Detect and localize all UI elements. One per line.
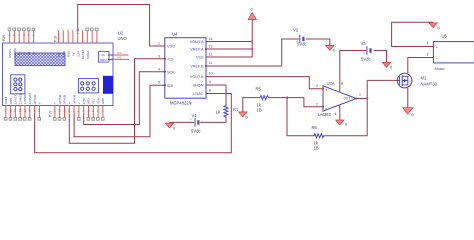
wire 5V rail to U4 VDD bbox=[78, 5, 165, 47]
wire VOUT.B pin10 to comparator + bbox=[206, 77, 323, 89]
svg-text:12: 12 bbox=[209, 53, 213, 57]
arduino ICSP header 1 bbox=[11, 75, 25, 94]
svg-text:VOUT.B: VOUT.B bbox=[190, 75, 204, 79]
svg-text:11/PWM: 11/PWM bbox=[23, 93, 27, 104]
svg-text:OUT: OUT bbox=[344, 97, 351, 101]
svg-text:U2: U2 bbox=[118, 31, 124, 36]
svg-text:-: - bbox=[373, 52, 374, 56]
svg-text:VOUT.A: VOUT.A bbox=[190, 40, 204, 44]
svg-text:3.3V: 3.3V bbox=[76, 51, 80, 57]
svg-text:R1: R1 bbox=[233, 107, 239, 112]
ground 0 at V2 bbox=[326, 45, 336, 52]
op-amp U3A LM393 bbox=[316, 81, 361, 117]
wire R5 right to node bbox=[270, 97, 287, 99]
arduino USB block bbox=[103, 76, 113, 94]
ground 0 at V3 bbox=[382, 62, 392, 69]
svg-text:0: 0 bbox=[246, 116, 248, 120]
wire R6 right to output node bbox=[327, 99, 367, 136]
svg-text:3: 3 bbox=[158, 54, 160, 58]
svg-text:NAMT30: NAMT30 bbox=[421, 82, 438, 87]
ground 0 flipped up bbox=[248, 8, 256, 20]
svg-text:4: 4 bbox=[158, 67, 160, 71]
svg-text:10: 10 bbox=[209, 72, 213, 76]
svg-text:-: - bbox=[201, 119, 202, 123]
svg-text:10/PWM: 10/PWM bbox=[28, 93, 32, 104]
svg-text:1/TX: 1/TX bbox=[82, 98, 86, 104]
svg-text:A5/SCL: A5/SCL bbox=[8, 48, 12, 58]
svg-text:UNO: UNO bbox=[118, 36, 128, 41]
connector U5 motor bbox=[427, 34, 474, 72]
svg-text:8: 8 bbox=[209, 89, 211, 93]
svg-text:AREF: AREF bbox=[4, 96, 8, 104]
svg-text:+: + bbox=[325, 88, 328, 93]
svg-text:5: 5 bbox=[158, 81, 160, 85]
svg-text:GND: GND bbox=[62, 51, 66, 57]
svg-text:V4: V4 bbox=[192, 113, 198, 118]
battery V3 5Vdc bbox=[361, 41, 375, 62]
svg-text:14: 14 bbox=[209, 37, 213, 41]
svg-text:A1: A1 bbox=[27, 51, 31, 55]
battery V2 5Vdc bbox=[293, 28, 307, 47]
svg-text:U4: U4 bbox=[172, 32, 178, 37]
wire ~CS net bbox=[69, 59, 165, 144]
svg-text:SDA: SDA bbox=[96, 98, 100, 104]
svg-text:SCK: SCK bbox=[167, 70, 175, 74]
svg-text:+: + bbox=[363, 52, 365, 56]
svg-text:V3: V3 bbox=[361, 41, 367, 46]
svg-text:0: 0 bbox=[333, 49, 335, 53]
svg-text:IOREF: IOREF bbox=[86, 50, 90, 59]
svg-text:GRN: GRN bbox=[100, 58, 107, 62]
svg-text:U3A: U3A bbox=[327, 81, 335, 86]
svg-text:RESET: RESET bbox=[81, 49, 85, 59]
svg-text:GND: GND bbox=[101, 98, 105, 104]
svg-text:IP2: IP2 bbox=[118, 55, 122, 59]
svg-text:A0: A0 bbox=[32, 51, 36, 55]
svg-text:-CS: -CS bbox=[167, 57, 174, 61]
svg-text:5Vdc: 5Vdc bbox=[297, 42, 307, 47]
svg-text:9: 9 bbox=[209, 80, 211, 84]
transistor M1 NAMT30 mosfet bbox=[397, 73, 437, 88]
wire R1 bottom to V4 plus bbox=[200, 118, 226, 122]
svg-text:A3: A3 bbox=[18, 51, 22, 55]
svg-text:6/PWM: 6/PWM bbox=[58, 94, 62, 104]
arduino U2 body bbox=[3, 31, 128, 106]
wire R5 left to ground bbox=[243, 98, 259, 112]
svg-text:5Vdc: 5Vdc bbox=[191, 128, 201, 133]
wire U5 pin1 ground loop bbox=[392, 22, 434, 46]
svg-text:-LDAC: -LDAC bbox=[192, 92, 204, 96]
svg-text:VDD: VDD bbox=[167, 45, 175, 49]
junction R5 node bbox=[286, 96, 288, 98]
wire op-amp output to gate node bbox=[356, 98, 367, 100]
svg-text:3/PWM: 3/PWM bbox=[72, 94, 76, 104]
svg-text:9/PWM: 9/PWM bbox=[33, 94, 37, 104]
wire ~LDAC net bbox=[35, 94, 232, 153]
svg-text:1: 1 bbox=[158, 42, 160, 46]
svg-text:SCL: SCL bbox=[92, 98, 96, 104]
svg-text:0: 0 bbox=[412, 113, 414, 117]
svg-text:GND: GND bbox=[9, 98, 13, 104]
svg-text:SDI: SDI bbox=[167, 84, 173, 88]
svg-text:12/MISO: 12/MISO bbox=[18, 92, 22, 104]
svg-text:4: 4 bbox=[335, 112, 337, 116]
wire VREF.B pin11 to V2 bbox=[206, 39, 299, 66]
wire gate bbox=[367, 79, 397, 81]
svg-text:11: 11 bbox=[209, 61, 213, 65]
svg-text:+: + bbox=[190, 118, 192, 122]
battery V4 5Vdc bbox=[190, 113, 202, 133]
svg-text:0/RX: 0/RX bbox=[87, 98, 91, 104]
svg-text:P15: P15 bbox=[49, 111, 53, 117]
svg-text:0: 0 bbox=[345, 123, 347, 127]
wire V4 to ground bbox=[169, 121, 194, 123]
wire V3 to ground bbox=[374, 51, 387, 63]
wire op-amp V- to ground bbox=[339, 105, 341, 120]
svg-text:1B: 1B bbox=[314, 146, 319, 151]
wire M1 source to ground bbox=[407, 88, 409, 108]
arduino bottom-right digital pins 0-7 group bbox=[53, 94, 105, 120]
wire SDI net bbox=[74, 85, 165, 137]
svg-text:GND: GND bbox=[67, 51, 71, 57]
ground 0 at R5 bbox=[239, 112, 248, 120]
wire op-amp V+ to V3 bbox=[340, 51, 366, 93]
junction pin13 rail bbox=[251, 48, 253, 50]
svg-text:P18: P18 bbox=[54, 36, 58, 42]
svg-text:U5: U5 bbox=[442, 34, 448, 39]
svg-text:3: 3 bbox=[316, 84, 318, 88]
svg-text:M1: M1 bbox=[421, 76, 427, 81]
svg-text:13: 13 bbox=[209, 45, 213, 49]
wire node down to R6 bbox=[287, 98, 313, 136]
wire VOUT.A pin14 bbox=[206, 41, 252, 43]
arduino right-edge pins bbox=[108, 51, 129, 59]
arduino crystal hatched block bbox=[15, 53, 65, 66]
resistor R1 1k bbox=[216, 105, 240, 119]
svg-text:P26: P26 bbox=[2, 35, 6, 41]
junction output node bbox=[366, 97, 368, 99]
resistor R6 1k bbox=[312, 125, 327, 151]
svg-text:5/PWM: 5/PWM bbox=[63, 94, 67, 104]
wire VSS pin12 bbox=[206, 20, 252, 58]
arduino bottom-left digital pins 8-13 group bbox=[4, 92, 42, 120]
svg-text:0: 0 bbox=[173, 127, 175, 131]
ground 0 at op-amp bbox=[336, 120, 348, 127]
svg-text:IP4: IP4 bbox=[118, 51, 122, 55]
svg-text:13/SCK: 13/SCK bbox=[14, 94, 18, 104]
ground 0 at V4 bbox=[165, 123, 175, 131]
svg-text:V2: V2 bbox=[293, 28, 299, 33]
svg-text:R5: R5 bbox=[256, 87, 262, 92]
wire node to comparator minus bbox=[287, 98, 323, 107]
junction 5V pin bbox=[77, 29, 79, 31]
wire SCK net bbox=[84, 72, 165, 125]
svg-text:A2: A2 bbox=[22, 51, 26, 55]
svg-text:2: 2 bbox=[316, 102, 318, 106]
svg-text:MCP4822/e: MCP4822/e bbox=[170, 101, 193, 106]
wire V2 minus to ground bbox=[306, 39, 330, 45]
wire VREF.A pin13 bbox=[206, 48, 252, 50]
arduino V6 indicator box bbox=[99, 52, 110, 63]
svg-text:5V: 5V bbox=[72, 52, 76, 56]
svg-text:A4/SDA: A4/SDA bbox=[13, 48, 17, 58]
svg-text:-SHDN: -SHDN bbox=[191, 84, 203, 88]
svg-text:1: 1 bbox=[427, 42, 429, 46]
arduino ICSP header 2 bbox=[78, 79, 98, 93]
svg-text:8: 8 bbox=[341, 82, 343, 86]
arduino top-right power pins bbox=[56, 28, 98, 59]
svg-text:VREF.B: VREF.B bbox=[190, 65, 204, 69]
resistor R5 1k bbox=[256, 87, 270, 113]
ground 0 at M1 bbox=[403, 108, 414, 117]
svg-text:Motor: Motor bbox=[435, 66, 446, 71]
svg-text:5Vdc: 5Vdc bbox=[361, 57, 371, 62]
svg-text:0: 0 bbox=[438, 27, 440, 31]
svg-text:V6: V6 bbox=[101, 53, 105, 57]
svg-text:R6: R6 bbox=[312, 125, 318, 130]
svg-text:LM393: LM393 bbox=[318, 112, 331, 117]
svg-text:1B: 1B bbox=[257, 108, 262, 113]
ground 0 at U5 bbox=[429, 23, 440, 31]
junction pin14 rail bbox=[251, 40, 253, 42]
svg-text:VSS: VSS bbox=[196, 56, 204, 60]
DAC U4 MCP4822 bbox=[158, 32, 213, 106]
wire M1 drain to U5 pin2 bbox=[408, 58, 434, 74]
arduino top-left analog pins A5-A0 bbox=[7, 28, 36, 58]
wire ~SHDN pin9 to R1 bbox=[206, 85, 226, 105]
svg-text:VIN: VIN bbox=[57, 52, 61, 57]
svg-text:0: 0 bbox=[390, 66, 392, 70]
svg-text:1: 1 bbox=[359, 92, 361, 96]
svg-text:0: 0 bbox=[251, 8, 253, 12]
svg-text:2: 2 bbox=[427, 53, 429, 57]
svg-text:VREF.A: VREF.A bbox=[190, 48, 204, 52]
